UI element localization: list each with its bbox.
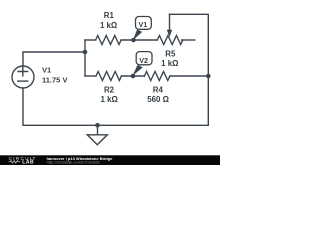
wire: vertical branch splitter x=85 (84, 40, 86, 76)
wire: top branch left lead (85, 39, 96, 41)
resistor R1 (96, 36, 122, 45)
node: main junction dot (83, 50, 88, 55)
svg-text:R5: R5 (165, 49, 176, 58)
node: V1 probe dot (131, 38, 136, 43)
R5 wiper arrowhead (167, 30, 172, 37)
ground symbol (87, 135, 107, 145)
probe V2 box (136, 52, 152, 65)
wire: source top to main junction (23, 52, 85, 66)
wire: R4 to right rail (170, 75, 209, 77)
wire: R5 right stub (182, 39, 195, 41)
wire: top rail to right rail (170, 14, 209, 125)
probe V1 needle (133, 29, 142, 40)
svg-text:V1: V1 (139, 20, 148, 29)
svg-text:R4: R4 (153, 85, 164, 94)
V1 minus sign (18, 80, 28, 82)
svg-text:R2: R2 (104, 85, 115, 94)
probe V2 needle (132, 65, 142, 76)
svg-text:11.75 V: 11.75 V (42, 76, 67, 85)
wire: R1 to R5 (top branch, V1 probe tap) (121, 39, 157, 41)
wire: source bottom to ground rail (23, 88, 208, 125)
probe V1 box (136, 17, 152, 30)
svg-text:1 kΩ: 1 kΩ (101, 95, 118, 104)
resistor R4 (144, 72, 170, 81)
svg-text:1 kΩ: 1 kΩ (161, 59, 178, 68)
node: V2 probe dot (131, 74, 136, 79)
logo zigzag (9, 161, 21, 164)
svg-text:http://circuitlab.com/c7mzm28: http://circuitlab.com/c7mzm28 (47, 160, 101, 165)
svg-text:V1: V1 (42, 66, 51, 75)
wire: R5 wiper riser (169, 14, 171, 31)
svg-text:LAB: LAB (22, 160, 34, 165)
resistor R2 (96, 72, 122, 81)
svg-text:R1: R1 (104, 11, 115, 20)
ground stub (97, 125, 99, 135)
node: ground junction dot (95, 123, 100, 128)
svg-text:560 Ω: 560 Ω (147, 95, 169, 104)
svg-text:V2: V2 (139, 56, 148, 65)
wire: R2 to R4 (V2 probe tap) (121, 75, 144, 77)
node: right rail junction dot (206, 74, 211, 79)
voltage source V1 circle (12, 66, 34, 88)
resistor R5 (potentiometer body) (157, 36, 183, 45)
V1 plus sign (18, 67, 28, 76)
wire: middle branch left lead (85, 75, 96, 77)
svg-text:1 kΩ: 1 kΩ (100, 21, 117, 30)
footer banner (0, 155, 220, 165)
